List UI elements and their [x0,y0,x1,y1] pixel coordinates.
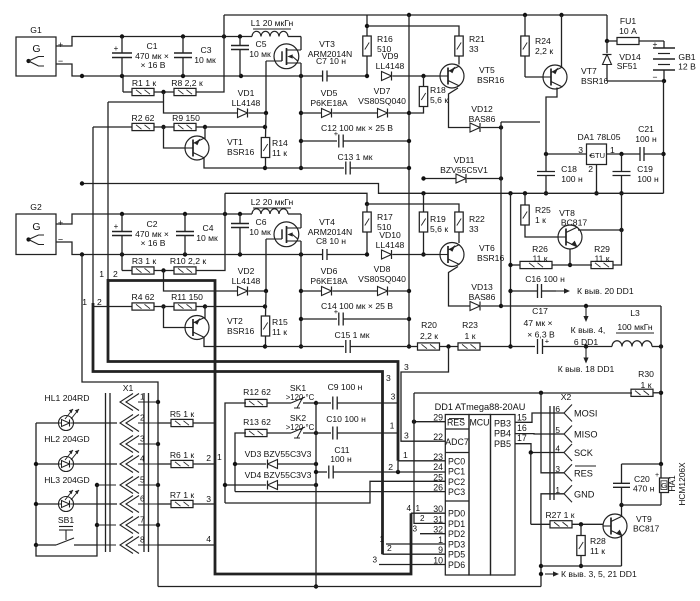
svg-text:100 н: 100 н [330,454,352,464]
wire battery minus down [663,81,665,193]
thermal switch SK2 [267,432,292,434]
wire VT1 collector [204,127,206,139]
resistor R5 [158,422,171,424]
resistor R7 [158,503,171,505]
svg-text:2: 2 [588,164,593,174]
X1 pin 5 [120,477,133,494]
wire right bus down [660,306,662,464]
wire G1 plus to rail [56,37,122,47]
resistor R30 [631,389,653,396]
wire G2 plus [56,214,122,224]
svg-text:HL1 204RD: HL1 204RD [45,393,90,403]
wire VT9 emitter [621,536,623,566]
svg-text:MOSI: MOSI [574,409,597,419]
svg-text:PC0: PC0 [448,456,465,466]
capacitor C13 [265,167,344,169]
wire GND to X2 [541,494,564,587]
capacitor C18 [545,154,547,172]
svg-text:R26: R26 [532,244,548,254]
svg-text:BSR16: BSR16 [227,147,254,157]
wire R3R10 junction to VD2 [164,271,239,292]
capacitor C16 [511,290,538,292]
transistor VT8 [558,225,582,249]
svg-text:PD6: PD6 [448,560,465,570]
svg-text:26: 26 [433,483,443,493]
svg-text:R28: R28 [590,536,606,546]
battery GB1 [663,41,665,48]
svg-text:К выв. 3, 5, 21 DD1: К выв. 3, 5, 21 DD1 [561,569,637,579]
capacitor C2 [121,214,123,232]
diode VD14 [606,41,608,53]
svg-text:11 к: 11 к [594,254,609,264]
transistor VT9 [603,514,627,538]
svg-text:VT8: VT8 [559,208,575,218]
svg-text:47 мк ×: 47 мк × [523,318,552,328]
svg-text:25: 25 [433,472,443,482]
svg-text:2: 2 [113,269,118,279]
svg-text:+: + [653,39,658,49]
capacitor C8 [320,254,323,256]
svg-text:LL4148: LL4148 [376,61,405,71]
svg-text:VT1: VT1 [227,137,243,147]
wire bottom gnd [158,586,541,588]
svg-text:R7 1 к: R7 1 к [170,490,195,500]
wire GND bus [82,184,664,194]
wire gnd drop right [510,193,512,346]
resistor R11 [174,303,196,310]
svg-text:R22: R22 [469,214,485,224]
svg-text:C12 100 мк × 25 В: C12 100 мк × 25 В [321,123,393,133]
wire PB5 to SCK [515,444,564,453]
wire PD3 stub [386,543,445,545]
resistor R17 [366,204,368,212]
resistor R22 [455,212,463,232]
svg-text:BSR16: BSR16 [581,76,608,86]
wire VT7 emitter [546,88,557,155]
svg-text:3: 3 [372,556,377,565]
svg-text:× 6,3 В: × 6,3 В [527,330,555,340]
svg-text:1: 1 [390,422,395,431]
svg-text:VD11: VD11 [454,155,475,165]
svg-text:P6KE18A: P6KE18A [310,98,348,108]
generator G1 [16,37,56,76]
svg-text:SF51: SF51 [617,61,638,71]
wire VT2 base [164,307,186,328]
resistor R1 [122,76,124,92]
svg-text:10 А: 10 А [619,26,637,36]
svg-text:VD9: VD9 [382,51,399,61]
svg-text:3: 3 [140,435,145,444]
diode VD2 [238,287,248,296]
svg-text:R17: R17 [377,212,393,222]
wire V+ rail channel 2 [122,213,252,215]
svg-text:VD1: VD1 [238,88,255,98]
wire ADC divider tap [401,347,449,442]
svg-text:1 к: 1 к [641,380,652,390]
svg-text:BAS86: BAS86 [469,114,496,124]
svg-text:VT4: VT4 [319,217,335,227]
wire VT5 collector to VD12 [449,88,471,128]
svg-text:PC3: PC3 [448,487,465,497]
X1 pin 4 [120,456,133,473]
svg-text:R11 150: R11 150 [171,292,203,302]
svg-text:PD0: PD0 [448,509,465,519]
svg-text:VD7: VD7 [374,86,391,96]
wire reset net [414,392,632,394]
svg-text:R15: R15 [272,317,288,327]
wire top battery bus [224,14,607,16]
svg-text:R19: R19 [430,214,446,224]
resistor R26 [511,264,520,266]
wire VT8 emitter [569,249,571,265]
svg-text:VT2: VT2 [227,316,243,326]
wire VT3 source node [300,76,302,168]
svg-text:G2: G2 [30,202,42,212]
svg-text:C4: C4 [203,223,214,233]
svg-text:GND: GND [574,489,595,499]
thermal switch SK1 [267,402,292,404]
capacitor C6 [239,214,241,224]
inductor L2 [252,209,288,214]
X2 pin 4 SCK [564,444,572,461]
svg-text:MISO: MISO [574,430,597,440]
svg-text:MCU: MCU [469,418,489,428]
svg-text:1: 1 [403,450,408,460]
svg-text:LL4148: LL4148 [376,240,405,250]
svg-text:R4 62: R4 62 [132,292,155,302]
svg-text:+: + [114,44,119,53]
svg-text:VD8: VD8 [374,264,391,274]
svg-text:11 к: 11 к [590,546,605,556]
wire 5V raw to L3 row [501,305,661,307]
svg-text:C13 1 мк: C13 1 мк [338,152,373,162]
svg-text:LL4148: LL4148 [232,276,261,286]
svg-text:VD5: VD5 [321,88,338,98]
svg-text:× 16 В: × 16 В [140,238,165,248]
svg-text:C16 100 н: C16 100 н [525,274,565,284]
resistor R18 [419,87,427,107]
wire bold net1 [107,102,109,279]
transistor VT5 [440,64,464,88]
wire X1 right gnd column [157,402,159,587]
svg-text:VT6: VT6 [479,243,495,253]
generator G2 [16,214,56,255]
svg-text:15: 15 [517,413,527,423]
svg-text:9: 9 [438,545,443,555]
svg-text:24: 24 [433,462,443,472]
diode VD9 [382,72,392,81]
svg-text:1 к: 1 к [465,331,476,341]
svg-text:SK2: SK2 [290,413,306,423]
diode VD13 [470,302,480,311]
svg-text:VD10: VD10 [379,230,401,240]
svg-text:+: + [655,472,659,479]
LED HL1 [36,422,58,424]
resistor R23 [458,343,480,350]
svg-text:C5: C5 [256,39,267,49]
wire R16-R21 bus [367,26,459,36]
svg-text:7: 7 [140,516,145,525]
wire raw5V node [500,122,502,306]
capacitor C5 [239,37,241,46]
svg-text:33: 33 [469,44,479,54]
svg-text:L1 20 мкГн: L1 20 мкГн [251,18,294,28]
resistor R10 [174,267,196,274]
X2 pin 6 MOSI [564,405,572,422]
svg-text:>120 °C: >120 °C [286,393,315,402]
svg-text:R16: R16 [377,34,393,44]
svg-text:C15 1 мк: C15 1 мк [335,330,370,340]
wire ch2 bias bus [225,193,367,204]
svg-text:2: 2 [388,462,393,472]
svg-text:GB1: GB1 [678,52,695,62]
svg-text:X2: X2 [561,392,572,402]
svg-text:100 мкГн: 100 мкГн [617,322,653,332]
resistor R28 [577,536,585,556]
resistor R16 [366,15,368,36]
capacitor C20 [621,464,623,484]
arrow K vyv 4 6 DD1 [585,306,587,319]
svg-text:2: 2 [97,297,102,307]
wire GND rail channel 1 [82,75,320,77]
svg-text:1: 1 [416,504,421,513]
diode VD6 [301,290,322,292]
fuse FU1 [606,15,608,41]
svg-text:3: 3 [578,145,583,155]
transistor VT2 [185,316,209,340]
resistor R19 [419,212,427,232]
svg-text:4: 4 [206,534,211,544]
wire top buzzer row [622,463,662,465]
svg-text:PD5: PD5 [448,550,465,560]
X2 pin 1 GND [564,485,572,502]
resistor R14 [261,138,269,158]
svg-text:10 мк: 10 мк [194,55,216,65]
capacitor C9 [316,402,331,404]
resistor R4 [93,306,132,308]
transistor VT6 [440,243,464,267]
capacitor C1 [121,37,123,54]
svg-text:VT9: VT9 [636,514,652,524]
capacitor C17 [511,346,536,348]
diode VD10 [382,250,392,259]
svg-text:× 16 В: × 16 В [140,60,165,70]
X1 pin 1 [120,394,133,411]
svg-text:C21: C21 [638,124,654,134]
svg-text:100 н: 100 н [635,134,657,144]
svg-text:C6: C6 [256,217,267,227]
svg-text:2: 2 [140,414,145,423]
X1 pin 8 [120,537,133,554]
svg-text:3: 3 [386,373,391,383]
wire VT9 collector [621,505,623,517]
svg-text:+: + [58,218,63,228]
LED HL2 [59,457,74,472]
svg-text:VT7: VT7 [581,66,597,76]
svg-text:R14: R14 [272,138,288,148]
X1 pin 2 [120,415,133,432]
svg-text:R10 2,2 к: R10 2,2 к [170,256,206,266]
svg-text:C17: C17 [532,306,548,316]
svg-text:R18: R18 [430,85,446,95]
svg-text:К выв. 4,: К выв. 4, [571,325,606,335]
svg-text:VS80SQ040: VS80SQ040 [358,274,406,284]
svg-text:R9 150: R9 150 [172,113,200,123]
svg-text:X1: X1 [123,383,134,393]
svg-text:3: 3 [206,494,211,504]
wire R17-R22 bus [367,204,459,212]
svg-text:5,6 к: 5,6 к [430,224,448,234]
svg-text:G1: G1 [30,25,42,35]
svg-text:HL2 204GD: HL2 204GD [44,434,89,444]
buzzer HA1 [660,464,662,478]
svg-text:100 н: 100 н [637,174,659,184]
svg-text:К выв. 20 DD1: К выв. 20 DD1 [577,286,634,296]
svg-text:VD12: VD12 [471,104,493,114]
wire VT2 collector [204,307,206,319]
wire bold net2 [92,127,94,303]
capacitor C3 [182,37,184,54]
wire SB1 loop [36,485,97,556]
svg-text:C7 10 н: C7 10 н [316,56,346,66]
svg-text:2,2 к: 2,2 к [535,46,553,56]
svg-text:23: 23 [433,452,443,462]
wire G1 minus to rail [56,64,82,76]
svg-text:BC817: BC817 [561,218,587,228]
svg-text:SK1: SK1 [290,383,306,393]
wire PB4 to MISO [515,433,564,435]
diode VD7 [378,109,388,118]
wire HL left column [35,423,37,545]
svg-text:3: 3 [404,431,409,441]
wire output node bus [408,15,410,347]
wire G2 minus [56,242,82,255]
svg-text:10 мк: 10 мк [249,227,271,237]
resistor R12 [225,403,246,503]
resistor R21 [455,36,463,56]
wire RES pin29 [414,421,445,423]
svg-text:К выв. 18 DD1: К выв. 18 DD1 [558,364,615,374]
transistor VT7 [543,65,567,89]
svg-text:R20: R20 [421,320,437,330]
svg-text:−: − [58,56,63,66]
svg-text:1: 1 [99,269,104,279]
svg-text:PB3: PB3 [494,418,511,428]
transistor VT1 [185,136,209,160]
svg-text:BSR16: BSR16 [477,75,504,85]
wire PC2 net [225,481,445,503]
svg-text:R27 1 к: R27 1 к [545,510,574,520]
capacitor C7 [320,75,323,77]
resistor R15 [261,316,269,336]
svg-text:30: 30 [433,504,443,514]
inductor L1 [252,31,288,36]
capacitor C14 [301,318,337,320]
svg-text:C2: C2 [147,219,158,229]
wire PD2 stub [420,533,445,535]
svg-text:R1 1 к: R1 1 к [132,78,157,88]
diode VD12 [470,123,480,132]
svg-text:100 н: 100 н [561,174,583,184]
svg-text:10 мк: 10 мк [249,49,271,59]
diode VD5 [301,112,322,114]
resistor R27 [530,453,532,525]
wire VT2 emitter [204,338,265,347]
wire bold net4 [108,281,411,575]
svg-text:RES: RES [574,468,593,478]
wire VT4 gate [265,239,267,291]
svg-text:1 к: 1 к [535,215,546,225]
resistor R25 [524,193,526,205]
wire VT4 source node [300,255,302,347]
svg-text:FU1: FU1 [620,16,636,26]
svg-text:R2 62: R2 62 [132,113,155,123]
svg-text:HA1: HA1 [667,475,677,492]
wire V+ rail channel 1 [122,36,252,38]
wire K vyv 3 5 21 [545,573,556,575]
zener VD4 [225,484,266,486]
X1 pin 7 [120,517,133,534]
svg-text:PD1: PD1 [448,519,465,529]
capacitor C11 [316,471,327,473]
wire VT1 emitter [204,158,265,168]
wire PB3 to MOSI [515,413,564,422]
svg-text:6: 6 [140,495,145,504]
wire GND to X1 pin1 [82,255,158,403]
svg-text:1: 1 [140,393,145,402]
svg-text:+: + [58,40,63,50]
svg-text:VD13: VD13 [471,282,493,292]
diode VD8 [378,287,388,296]
svg-text:1: 1 [217,452,222,462]
svg-text:G: G [32,43,40,55]
resistor R3 [121,255,123,271]
svg-text:PB5: PB5 [494,439,511,449]
wire GND rail channel 2 [82,254,320,256]
svg-text:C3: C3 [201,45,212,55]
svg-text:BAS86: BAS86 [469,292,496,302]
capacitor C4 [184,214,186,232]
capacitor C21 [639,147,641,161]
wire RES to X2 [541,393,564,473]
svg-text:22: 22 [433,432,443,442]
svg-text:VS80SQ040: VS80SQ040 [358,96,406,106]
svg-text:8: 8 [140,536,145,545]
svg-text:C8 10 н: C8 10 н [316,236,346,246]
svg-text:BSR16: BSR16 [477,253,504,263]
wire DA1 out [607,153,640,155]
wire emitter row [541,565,622,567]
svg-text:C20: C20 [634,474,650,484]
svg-text:R12 62: R12 62 [243,387,271,397]
svg-text:STU: STU [590,151,605,160]
transistor VT3 MOSFET [274,44,299,69]
resistor R6 [158,463,171,465]
svg-text:BC817: BC817 [633,524,659,534]
svg-text:VT5: VT5 [479,65,495,75]
svg-text:11 к: 11 к [272,148,287,158]
svg-text:DD1 ATmega88-20AU: DD1 ATmega88-20AU [435,402,526,412]
svg-text:C9 100 н: C9 100 н [328,382,363,392]
svg-text:R25: R25 [535,205,551,215]
resistor R9 [174,123,196,130]
resistor R29 [591,261,613,268]
svg-text:RES: RES [447,418,465,428]
svg-text:HL3 204GD: HL3 204GD [44,475,89,485]
svg-text:3: 3 [404,362,409,372]
svg-text:SB1: SB1 [58,515,74,525]
wire VT6 collector to VD13 [449,267,471,307]
